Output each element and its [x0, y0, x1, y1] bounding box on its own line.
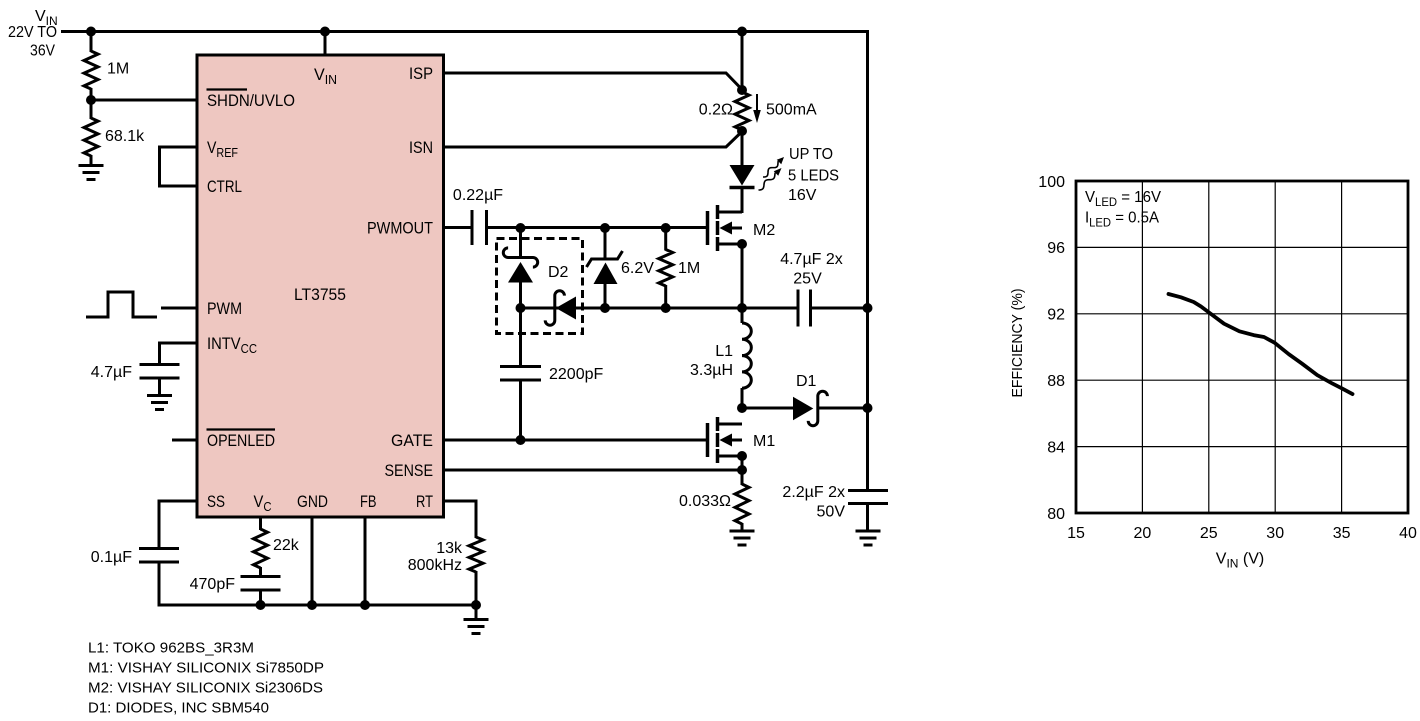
svg-text:LT3755: LT3755: [294, 285, 346, 304]
svg-text:80: 80: [1047, 506, 1065, 523]
svg-text:1M: 1M: [678, 260, 700, 277]
svg-text:16V: 16V: [788, 187, 817, 204]
svg-text:100: 100: [1038, 174, 1065, 191]
svg-text:SENSE: SENSE: [385, 461, 434, 480]
svg-text:M2: VISHAY SILICONIX Si2306DS: M2: VISHAY SILICONIX Si2306DS: [88, 680, 323, 697]
svg-text:22k: 22k: [273, 537, 300, 554]
svg-text:VIN (V): VIN (V): [1216, 550, 1264, 570]
svg-text:0.1µF: 0.1µF: [91, 549, 132, 566]
svg-text:M1: M1: [753, 433, 775, 450]
svg-text:SS: SS: [207, 492, 225, 511]
svg-text:25V: 25V: [793, 270, 822, 287]
svg-text:SHDN/UVLO: SHDN/UVLO: [207, 91, 295, 110]
svg-text:4.7µF 2x: 4.7µF 2x: [780, 251, 843, 268]
svg-text:84: 84: [1047, 439, 1065, 456]
svg-text:GND: GND: [297, 492, 328, 511]
svg-text:M2: M2: [753, 222, 775, 239]
svg-text:15: 15: [1067, 525, 1085, 542]
svg-text:22V TO: 22V TO: [8, 24, 57, 41]
svg-text:D1: DIODES, INC SBM540: D1: DIODES, INC SBM540: [88, 700, 269, 717]
svg-text:88: 88: [1047, 373, 1065, 390]
svg-text:FB: FB: [360, 492, 377, 511]
svg-text:PWM: PWM: [207, 299, 242, 318]
svg-text:0.033Ω: 0.033Ω: [679, 493, 731, 510]
svg-text:D1: D1: [796, 373, 817, 390]
svg-text:6.2V: 6.2V: [621, 260, 654, 277]
svg-text:UP TO: UP TO: [789, 146, 833, 163]
svg-text:GATE: GATE: [391, 431, 433, 450]
svg-text:13k: 13k: [436, 540, 463, 557]
svg-text:D2: D2: [548, 264, 569, 281]
svg-text:40: 40: [1399, 525, 1417, 542]
svg-text:35: 35: [1333, 525, 1351, 542]
svg-text:L1: L1: [715, 343, 733, 360]
svg-text:L1: TOKO 962BS_3R3M: L1: TOKO 962BS_3R3M: [88, 640, 254, 657]
svg-text:68.1k: 68.1k: [105, 128, 145, 145]
svg-text:800kHz: 800kHz: [408, 557, 462, 574]
svg-text:500mA: 500mA: [766, 101, 817, 118]
svg-text:VLED = 16V: VLED = 16V: [1085, 189, 1161, 209]
svg-text:ISN: ISN: [409, 138, 433, 157]
svg-text:20: 20: [1134, 525, 1152, 542]
svg-text:EFFICIENCY (%): EFFICIENCY (%): [1009, 289, 1026, 398]
svg-text:4.7µF: 4.7µF: [91, 364, 132, 381]
svg-text:CTRL: CTRL: [207, 177, 242, 196]
svg-text:1M: 1M: [107, 60, 129, 77]
svg-text:92: 92: [1047, 307, 1065, 324]
svg-text:PWMOUT: PWMOUT: [367, 219, 433, 238]
svg-text:30: 30: [1266, 525, 1284, 542]
svg-text:96: 96: [1047, 240, 1065, 257]
svg-text:50V: 50V: [817, 503, 846, 520]
svg-text:25: 25: [1200, 525, 1218, 542]
svg-text:2200pF: 2200pF: [549, 366, 603, 383]
svg-text:M1: VISHAY SILICONIX Si7850DP: M1: VISHAY SILICONIX Si7850DP: [88, 660, 324, 677]
svg-text:ISP: ISP: [409, 64, 433, 83]
svg-text:ILED = 0.5A: ILED = 0.5A: [1085, 210, 1159, 230]
svg-text:RT: RT: [416, 492, 433, 511]
svg-text:5 LEDS: 5 LEDS: [788, 167, 839, 184]
svg-text:470pF: 470pF: [190, 576, 236, 593]
svg-text:2.2µF 2x: 2.2µF 2x: [782, 484, 845, 501]
svg-text:OPENLED: OPENLED: [207, 431, 275, 450]
svg-text:0.2Ω: 0.2Ω: [699, 101, 733, 118]
svg-text:36V: 36V: [30, 42, 55, 59]
svg-text:3.3µH: 3.3µH: [690, 362, 733, 379]
svg-text:0.22µF: 0.22µF: [453, 187, 503, 204]
